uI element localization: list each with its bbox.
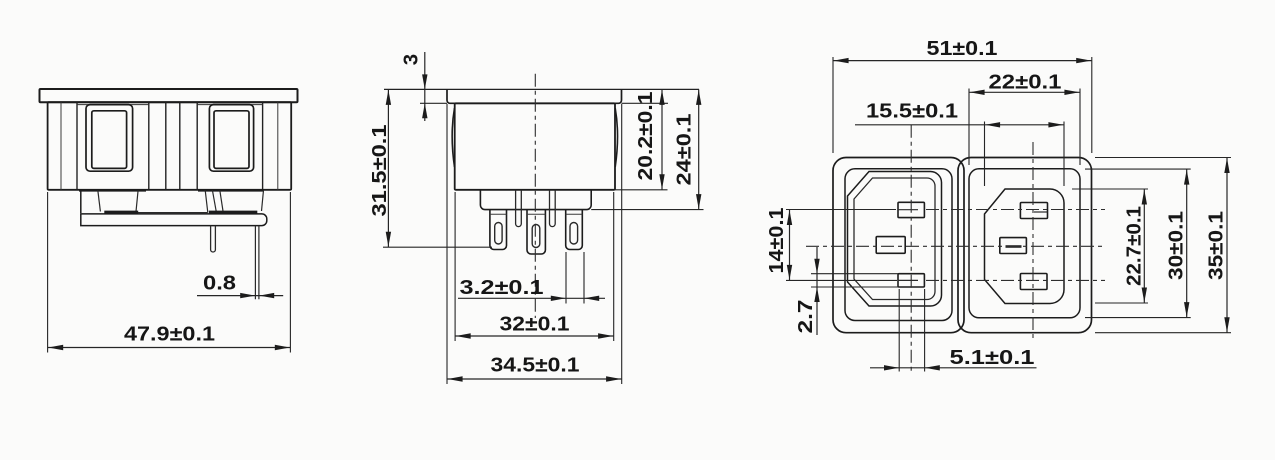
dim 47.9 line: [48, 347, 291, 349]
window1 inner frame: [92, 111, 127, 169]
body wall line left: [60, 102, 62, 190]
svg-text:3: 3: [400, 54, 423, 65]
window2 outer frame: [209, 105, 253, 172]
B top slot: [1020, 203, 1047, 219]
svg-text:51±0.1: 51±0.1: [927, 37, 998, 60]
svg-text:24±0.1: 24±0.1: [673, 114, 696, 186]
dim 32 line: [455, 335, 614, 337]
window1 outer frame: [86, 105, 133, 172]
dim 31.5 line: [387, 89, 389, 247]
dim 47.9 extension left: [47, 192, 49, 353]
A bottom pin centerline stub: [898, 279, 918, 281]
module B outer shell: [958, 158, 1092, 333]
body bottom ext right: [615, 189, 668, 191]
terminal T1: [490, 210, 507, 250]
centerline bottom pin row: [926, 279, 1105, 281]
dim 30 line: [1186, 169, 1188, 318]
dim 34.5 ext lines: [446, 104, 448, 384]
svg-text:5.1±0.1: 5.1±0.1: [950, 346, 1035, 369]
dim 32 ext lines: [454, 192, 456, 341]
svg-text:22±0.1: 22±0.1: [989, 71, 1062, 94]
A middle pin: [876, 237, 905, 254]
dim 22 ext lines: [968, 89, 970, 166]
step bottom ext right: [591, 209, 703, 211]
svg-text:20.2±0.1: 20.2±0.1: [634, 92, 657, 181]
module A inner rim: [845, 169, 952, 321]
flange side profile: [447, 90, 622, 104]
latch dark seat left: [104, 211, 138, 215]
flange bottom ext left: [420, 102, 447, 104]
dim 22.7 ext lines: [1072, 188, 1148, 190]
dim 30 ext lines: [1085, 168, 1191, 170]
dim 14 line: [789, 210, 791, 281]
dim 5.1 ext lines: [898, 289, 900, 372]
A bottom pin: [898, 274, 924, 287]
module A recess octagon: [848, 172, 942, 307]
dim 5.1 leader: [870, 367, 1037, 369]
svg-text:47.9±0.1: 47.9±0.1: [124, 323, 215, 346]
body bottom dark seat right: [198, 189, 264, 192]
svg-text:0.8: 0.8: [203, 272, 236, 295]
dim 3.2 leader: [458, 297, 605, 299]
dim 35 ext lines: [1095, 157, 1231, 159]
dim 47.9 extension right: [289, 192, 291, 353]
svg-text:15.5±0.1: 15.5±0.1: [866, 100, 958, 123]
dim 31.5 bottom ext: [383, 246, 492, 248]
terminal T2: [527, 210, 545, 254]
dim 20.2 line: [661, 89, 663, 189]
center dash line: [534, 74, 536, 318]
svg-text:3.2±0.1: 3.2±0.1: [460, 276, 544, 299]
window2 inner frame: [214, 111, 249, 169]
center divider right: [179, 102, 181, 190]
B middle slot inner line: [1006, 245, 1022, 248]
dim 15.5 ext lines: [984, 122, 986, 187]
lower latch slant a: [98, 190, 101, 211]
module B socket octagon: [985, 189, 1065, 304]
module B inner rim: [969, 169, 1080, 318]
svg-text:35±0.1: 35±0.1: [1205, 211, 1228, 280]
svg-text:32±0.1: 32±0.1: [500, 313, 570, 336]
body bottom dark seat left: [79, 189, 146, 192]
center divider left: [165, 102, 167, 190]
body wall line right: [277, 102, 279, 190]
lower latch section left edge: [80, 190, 82, 213]
dim 51 ext lines: [832, 57, 834, 153]
step block: [480, 190, 591, 210]
middle view: connector side elevation: [368, 52, 704, 384]
centerline horizontal main: [806, 245, 1102, 247]
B bottom slot: [1020, 274, 1047, 290]
dim 22.7 line: [1143, 189, 1145, 303]
bay top shelf line: [77, 104, 149, 106]
flange plate: [40, 89, 298, 102]
terminal T3: [566, 210, 583, 250]
dim 2.7 line and arrows: [816, 247, 818, 335]
dim 34.5 line: [447, 378, 622, 380]
central latch trapezoid: [136, 190, 208, 212]
dim 24 line: [698, 89, 700, 209]
module A recess inner line: [854, 178, 935, 300]
svg-text:2.7: 2.7: [794, 300, 817, 334]
body outline: [48, 102, 292, 190]
bay1 right edge: [148, 102, 150, 190]
lower latch slant b: [212, 190, 216, 211]
peg right: [550, 190, 556, 227]
dim 14 ext top: [786, 209, 896, 211]
dim 22 line: [969, 91, 1080, 93]
svg-text:14±0.1: 14±0.1: [765, 208, 788, 274]
dim 3.2 ext lines: [565, 252, 567, 304]
svg-text:34.5±0.1: 34.5±0.1: [491, 354, 580, 377]
centerline B vertical: [1032, 142, 1034, 338]
A earth pin top: [898, 202, 924, 217]
bay1 left edge: [76, 102, 78, 190]
module A outer shell: [833, 158, 964, 333]
lower latch slant c: [220, 190, 223, 211]
left view: connector rear elevation: [40, 89, 298, 353]
svg-text:30±0.1: 30±0.1: [1165, 211, 1188, 280]
pin right (0.8 wide): [255, 226, 259, 300]
flange top extended line: [384, 88, 699, 90]
bay2 left edge: [196, 102, 198, 190]
bay2 right edge: [262, 102, 264, 190]
A pin centerline stub: [898, 209, 918, 211]
side clip bulge left: [452, 108, 454, 167]
dim 15.5 line: [855, 124, 1064, 126]
B top slot inner line: [1034, 211, 1048, 213]
svg-text:31.5±0.1: 31.5±0.1: [368, 125, 391, 217]
dim 35 line: [1226, 158, 1228, 333]
svg-text:22.7±0.1: 22.7±0.1: [1123, 206, 1146, 286]
lower latch right slant: [262, 190, 264, 211]
dim 14 ext bottom: [786, 279, 897, 281]
centerline top pin row: [926, 209, 1105, 211]
right view: mating face of C14+C13 combo: [765, 37, 1231, 373]
dim 2.7 ext lines: [811, 273, 898, 275]
centerline A vertical: [910, 125, 912, 373]
dim 0.8 leader: [197, 295, 283, 297]
side clip bulge right: [615, 108, 617, 167]
bottom bar: [81, 214, 267, 226]
dim 51 line: [833, 60, 1092, 62]
pin left: [211, 226, 216, 252]
dim 3 vertical line: [424, 52, 426, 121]
peg left: [516, 190, 522, 227]
B middle slot: [1000, 238, 1027, 254]
flange bottom ext right: [622, 102, 669, 104]
latch dark seat right: [209, 211, 257, 215]
body outline: [455, 103, 615, 190]
